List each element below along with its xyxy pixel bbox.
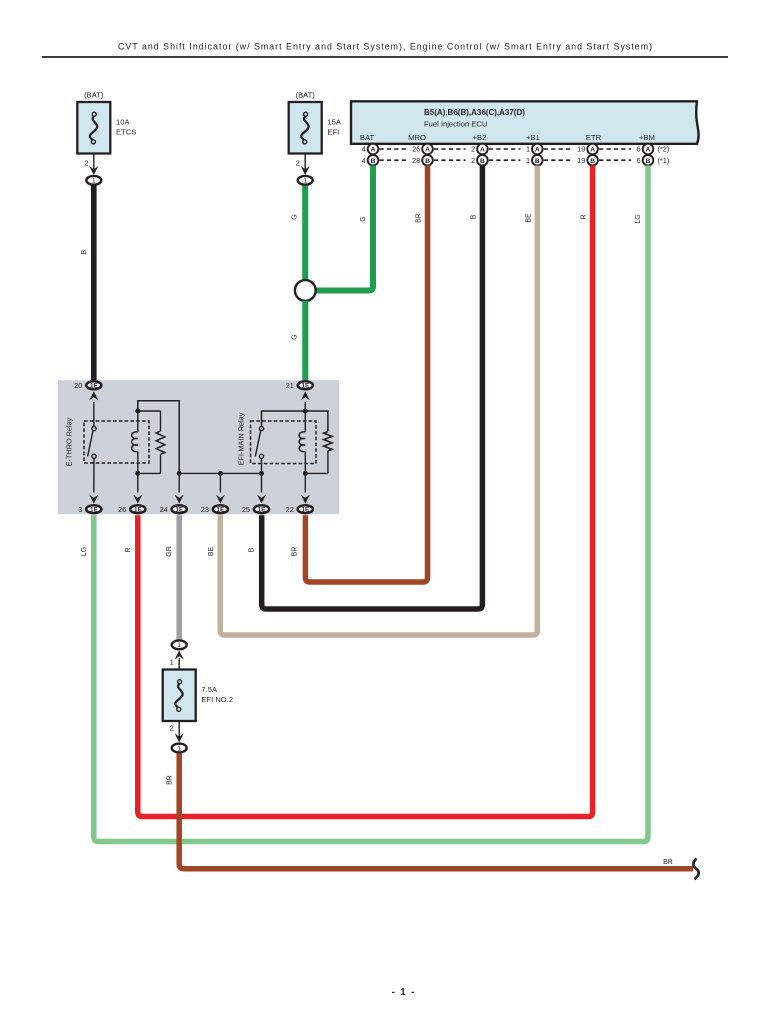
svg-text:+B1: +B1 bbox=[526, 133, 540, 142]
svg-text:BE: BE bbox=[208, 547, 215, 557]
svg-text:B: B bbox=[535, 158, 540, 165]
svg-text:GR: GR bbox=[166, 546, 173, 557]
svg-text:+B2: +B2 bbox=[473, 133, 487, 142]
svg-text:EFI-MAIN Relay: EFI-MAIN Relay bbox=[237, 412, 246, 465]
svg-text:10A: 10A bbox=[116, 118, 130, 127]
E-THRO coil link to resistor bbox=[138, 410, 161, 412]
svg-text:MRO: MRO bbox=[408, 133, 426, 142]
connector 1 below fuse1 bbox=[86, 176, 101, 185]
junction circle J1 bbox=[295, 280, 316, 301]
dashed link after BAT bbox=[380, 148, 407, 150]
svg-text:B: B bbox=[590, 158, 595, 165]
connector 1 below fuse3 bbox=[172, 744, 187, 753]
wire GR pin24 to fuse EFI NO.2 bbox=[176, 515, 182, 640]
svg-text:B: B bbox=[471, 214, 478, 219]
svg-text:A: A bbox=[425, 147, 430, 154]
svg-text:1: 1 bbox=[526, 156, 530, 165]
dashed link after +B1 bbox=[544, 148, 571, 150]
E-THRO coil riser top bbox=[138, 401, 179, 474]
svg-text:20: 20 bbox=[74, 381, 82, 390]
title underline bbox=[42, 56, 728, 58]
svg-text:BR: BR bbox=[292, 547, 299, 557]
svg-text:2: 2 bbox=[84, 159, 88, 168]
svg-text:1E: 1E bbox=[90, 506, 98, 513]
wire BR ECU MRO to relay pin 22 bbox=[305, 166, 427, 583]
svg-text:1E: 1E bbox=[301, 506, 309, 513]
svg-text:2: 2 bbox=[170, 724, 174, 733]
wire fuse3 bottom bbox=[178, 722, 180, 742]
connector 1 above fuse3 bbox=[172, 640, 187, 649]
wire bus to pins 23 25 bbox=[179, 472, 261, 474]
ECU pin MRO B28 bbox=[422, 155, 433, 166]
relay pin 3 connector bbox=[89, 495, 98, 504]
svg-text:23: 23 bbox=[201, 505, 209, 514]
svg-text:26: 26 bbox=[412, 145, 420, 154]
ECU pin +B1 B1 bbox=[532, 155, 543, 166]
wire B fuse1 to relay pin20 bbox=[91, 186, 97, 381]
svg-text:B: B bbox=[249, 547, 256, 552]
EFI-MAIN switch bbox=[259, 427, 263, 431]
svg-text:ETR: ETR bbox=[586, 133, 602, 142]
svg-text:BR: BR bbox=[167, 775, 174, 785]
EFI-MAIN top bus bbox=[304, 402, 306, 411]
arrow into connector bbox=[301, 166, 310, 175]
E-THRO resistor bbox=[156, 431, 165, 455]
ECU pin MRO A26 bbox=[422, 144, 433, 155]
svg-text:B: B bbox=[480, 158, 485, 165]
wire G from fuse2 to junction bbox=[302, 186, 308, 281]
svg-text:1E: 1E bbox=[301, 383, 309, 390]
svg-text:2: 2 bbox=[296, 159, 300, 168]
relay block box bbox=[58, 380, 339, 514]
svg-text:(*2): (*2) bbox=[658, 145, 670, 154]
relay pin 21 connector bbox=[298, 381, 313, 389]
svg-text:1: 1 bbox=[526, 145, 530, 154]
svg-text:B: B bbox=[425, 158, 430, 165]
svg-text:G: G bbox=[360, 216, 367, 221]
dashed link after +B2 bbox=[489, 148, 521, 150]
svg-text:1E: 1E bbox=[134, 506, 142, 513]
E-THRO coil L1 bbox=[137, 411, 139, 432]
svg-text:6: 6 bbox=[637, 145, 641, 154]
svg-text:G: G bbox=[292, 214, 299, 219]
ECU pin +B1 A1 bbox=[532, 144, 543, 155]
wire BE ECU +B1 to relay pin 23 bbox=[220, 166, 537, 636]
wire LG ECU +BM to relay pin 3 bbox=[94, 166, 648, 842]
ECU pin BAT B4 bbox=[368, 155, 379, 166]
svg-text:2: 2 bbox=[471, 145, 475, 154]
svg-text:19: 19 bbox=[577, 145, 585, 154]
svg-text:15A: 15A bbox=[327, 118, 341, 127]
svg-text:1: 1 bbox=[303, 178, 307, 185]
svg-text:EFI NO.2: EFI NO.2 bbox=[201, 695, 233, 704]
svg-text:E-THRO Relay: E-THRO Relay bbox=[65, 417, 74, 466]
svg-text:21: 21 bbox=[286, 381, 294, 390]
dashed link after MRO bbox=[434, 148, 466, 150]
svg-text:1: 1 bbox=[92, 178, 96, 185]
relay pin 26 connector bbox=[133, 495, 142, 504]
svg-text:B: B bbox=[646, 158, 651, 165]
svg-text:26: 26 bbox=[118, 505, 126, 514]
svg-text:(BAT): (BAT) bbox=[296, 91, 316, 100]
svg-text:1E: 1E bbox=[90, 383, 98, 390]
svg-text:6: 6 bbox=[637, 156, 641, 165]
fuse 7.5A EFI NO.2 bbox=[163, 670, 196, 722]
junction dots EFI-MAIN bbox=[303, 409, 308, 414]
wire G junction to relay pin 21 bbox=[302, 301, 308, 381]
svg-text:- 1 -: - 1 - bbox=[392, 987, 415, 998]
ECU pin +BM B6 bbox=[643, 155, 654, 166]
svg-text:B: B bbox=[81, 249, 88, 254]
svg-text:A: A bbox=[480, 147, 485, 154]
svg-text:LG: LG bbox=[635, 214, 642, 223]
junction dots E-THRO bbox=[135, 409, 140, 414]
svg-text:2: 2 bbox=[471, 156, 475, 165]
svg-text:4: 4 bbox=[362, 156, 366, 165]
svg-text:BE: BE bbox=[526, 213, 533, 223]
drop wires to bottom pins bbox=[137, 473, 139, 492]
svg-text:G: G bbox=[292, 334, 299, 339]
svg-text:BR: BR bbox=[663, 859, 673, 866]
svg-text:B5(A),B6(B),A36(C),A37(D): B5(A),B6(B),A36(C),A37(D) bbox=[424, 108, 525, 117]
EFI-MAIN Relay dashed box bbox=[251, 421, 317, 464]
connector 1 below fuse2 bbox=[298, 176, 313, 185]
svg-text:Fuel Injection ECU: Fuel Injection ECU bbox=[424, 120, 487, 129]
relay pin 22 connector bbox=[301, 495, 310, 504]
wire B ECU +B2 to relay pin 25 bbox=[262, 166, 483, 610]
E-THRO switch bbox=[93, 402, 95, 427]
ECU pin BAT A4 bbox=[368, 144, 379, 155]
wire R ECU ETR to relay pin 26 bbox=[138, 166, 593, 817]
svg-text:1: 1 bbox=[177, 745, 181, 752]
wire fuse2 to connector bbox=[304, 154, 306, 175]
svg-text:(*1): (*1) bbox=[658, 156, 670, 165]
svg-text:24: 24 bbox=[160, 505, 168, 514]
svg-text:A: A bbox=[371, 147, 376, 154]
ECU pin +B2 A2 bbox=[477, 144, 488, 155]
svg-text:1E: 1E bbox=[175, 506, 183, 513]
relay pin 23 connector bbox=[216, 495, 225, 504]
svg-text:25: 25 bbox=[242, 505, 250, 514]
svg-text:R: R bbox=[581, 214, 588, 219]
svg-text:(BAT): (BAT) bbox=[84, 91, 104, 100]
EFI-MAIN resistor bbox=[324, 432, 333, 452]
EFI-MAIN coil L2 bbox=[304, 411, 306, 432]
svg-text:19: 19 bbox=[577, 156, 585, 165]
svg-text:28: 28 bbox=[412, 156, 420, 165]
ECU pin ETR A19 bbox=[587, 144, 598, 155]
svg-text:1E: 1E bbox=[217, 506, 225, 513]
svg-text:+BM: +BM bbox=[639, 133, 655, 142]
relay pin 24 connector bbox=[175, 495, 184, 504]
svg-text:CVT and Shift Indicator (w/ Sm: CVT and Shift Indicator (w/ Smart Entry … bbox=[118, 41, 652, 51]
svg-text:B: B bbox=[371, 158, 376, 165]
svg-text:A: A bbox=[646, 147, 651, 154]
svg-text:4: 4 bbox=[362, 145, 366, 154]
svg-text:A: A bbox=[535, 147, 540, 154]
ECU pin +BM A6 bbox=[643, 144, 654, 155]
svg-text:1: 1 bbox=[170, 658, 174, 667]
continuation hook bbox=[693, 859, 698, 880]
svg-text:BAT: BAT bbox=[360, 133, 375, 142]
Fuel Injection ECU box U1 bbox=[351, 101, 699, 144]
wire BR fuse3 to right edge bbox=[179, 753, 693, 869]
relay pin 25 connector bbox=[257, 495, 266, 504]
svg-text:LG: LG bbox=[81, 547, 88, 556]
svg-text:A: A bbox=[590, 147, 595, 154]
svg-text:1E: 1E bbox=[258, 506, 266, 513]
dashed link after ETR bbox=[599, 148, 631, 150]
E-THRO Relay dashed box bbox=[84, 421, 149, 463]
svg-text:ETCS: ETCS bbox=[116, 128, 136, 137]
svg-text:EFI: EFI bbox=[327, 128, 339, 137]
wire fuse1 to connector bbox=[93, 154, 95, 175]
svg-text:7.5A: 7.5A bbox=[201, 685, 218, 694]
relay pin 20 connector bbox=[86, 381, 101, 389]
svg-text:3: 3 bbox=[78, 505, 82, 514]
svg-text:R: R bbox=[125, 547, 132, 552]
ECU pin +B2 B2 bbox=[477, 155, 488, 166]
svg-text:BR: BR bbox=[416, 213, 423, 223]
svg-text:22: 22 bbox=[286, 505, 294, 514]
ECU pin ETR B19 bbox=[587, 155, 598, 166]
wire G from BAT pin B to junction bbox=[316, 166, 373, 291]
svg-text:1: 1 bbox=[177, 642, 181, 649]
arrow into connector bbox=[89, 166, 98, 175]
